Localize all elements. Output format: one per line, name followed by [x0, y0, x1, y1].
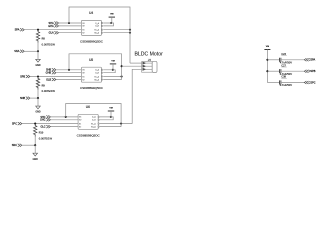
node SNB junction	[37, 97, 39, 99]
svg-text:SNC: SNC	[12, 144, 17, 147]
svg-text:VM: VM	[111, 61, 114, 63]
svg-text:U5: U5	[89, 58, 93, 62]
wire VM caps bus	[266, 50, 268, 83]
capacitor C27	[280, 64, 293, 76]
svg-text:S2: S2	[82, 33, 84, 35]
svg-text:GLA: GLA	[49, 32, 54, 35]
port SHC	[40, 115, 50, 118]
power flag VM (U6)	[108, 108, 114, 118]
wire R9 to SNB	[37, 90, 39, 99]
svg-text:CSPA: CSPA	[309, 59, 316, 62]
svg-text:GND: GND	[35, 65, 40, 67]
port CSPA	[304, 58, 315, 61]
wire SNA to junction	[24, 50, 38, 52]
ground GND A	[35, 51, 40, 67]
svg-text:GND: GND	[35, 112, 40, 114]
wire VM bus to C27	[267, 70, 279, 72]
port SNA	[14, 50, 24, 53]
svg-text:G1: G1	[82, 23, 85, 25]
capacitor C38	[280, 76, 293, 88]
port GHC	[40, 118, 50, 121]
wire phase A loop	[69, 7, 130, 63]
port GHB	[46, 71, 56, 74]
port GLA	[49, 31, 59, 34]
port CSPB	[304, 70, 315, 73]
svg-text:S1_A: S1_A	[94, 29, 99, 32]
port CSPC	[304, 81, 315, 84]
node SPA junction	[37, 29, 39, 31]
resistor R9	[36, 77, 55, 94]
svg-text:VM: VM	[109, 108, 112, 110]
svg-text:CSD88599Q5DC: CSD88599Q5DC	[80, 86, 104, 90]
label BLDC Motor	[135, 52, 164, 58]
wire GHA to U4 pin 2	[59, 25, 82, 27]
ground GND C	[33, 145, 38, 161]
port GLB	[46, 78, 56, 81]
svg-text:GHB: GHB	[46, 72, 52, 75]
wire SNC to junction	[22, 144, 35, 146]
svg-text:R10: R10	[39, 131, 44, 134]
resistor R8	[36, 30, 55, 47]
wire R10 to SNC	[34, 137, 36, 146]
svg-text:GLC: GLC	[40, 126, 45, 129]
node phase B motor tap	[121, 65, 123, 67]
capacitor C23	[280, 53, 293, 65]
svg-text:S2: S2	[82, 79, 84, 81]
node SNA junction	[37, 50, 39, 52]
wire U4 SW pin row 4	[103, 32, 130, 34]
svg-text:GND: GND	[33, 159, 38, 161]
svg-text:S0_A: S0_A	[94, 32, 99, 35]
label CSD88599Q5DC U6	[77, 133, 101, 137]
svg-text:SPA: SPA	[15, 29, 20, 32]
wire U6 SW pin row 3	[100, 123, 132, 125]
wire U6 SW pin row 4	[100, 126, 121, 128]
port GLC	[40, 125, 50, 128]
wire SPC to U6 pin 3	[22, 123, 78, 125]
svg-text:S0_A: S0_A	[91, 125, 96, 128]
svg-text:SPC: SPC	[12, 123, 17, 126]
wire phase C loop	[66, 104, 121, 127]
wire SNB to junction	[30, 97, 38, 99]
port SPC	[12, 122, 22, 125]
wire U4 VIN pins hook	[103, 23, 113, 26]
wire SHC to U6 pin 1	[51, 116, 79, 118]
node U5 SW row3 junction	[121, 75, 123, 77]
svg-text:GHC: GHC	[40, 119, 46, 122]
port SHB	[46, 68, 56, 71]
svg-text:U6: U6	[86, 105, 90, 109]
svg-text:G2: G2	[82, 26, 85, 28]
svg-text:S1: S1	[82, 76, 84, 78]
svg-text:VM: VM	[266, 46, 269, 48]
power flag VM (caps)	[264, 46, 270, 49]
svg-text:4.7uF/50V: 4.7uF/50V	[280, 83, 293, 87]
label CSD88599Q5DC U4	[80, 39, 104, 43]
svg-text:SNB: SNB	[20, 97, 25, 100]
svg-text:S1: S1	[79, 123, 81, 125]
svg-text:S2: S2	[79, 126, 81, 128]
wire C38 to CSPC	[281, 82, 304, 84]
wire SHA to U4 pin 1	[59, 22, 82, 24]
U6 right pin bubbles	[98, 116, 100, 127]
node U4 SW row4 junction	[129, 32, 131, 34]
node SPC junction	[34, 123, 36, 125]
node SHA loop junction	[68, 22, 70, 24]
wire GLB to U5 pin 4	[56, 79, 81, 81]
port SPB	[20, 75, 30, 78]
svg-text:0.007E/1W: 0.007E/1W	[42, 89, 56, 93]
wire VM bus to C38	[267, 82, 279, 84]
power flag VM (U4)	[109, 14, 115, 24]
port GHA	[48, 24, 58, 27]
svg-text:G1: G1	[82, 70, 85, 72]
node VM bus junction C23	[266, 59, 268, 61]
wire phase C to motor pin 3	[132, 69, 142, 123]
connector J4 pins 1-3	[143, 62, 153, 71]
connector J4 body	[142, 61, 157, 72]
wire SPB to U5 pin 3	[30, 76, 81, 78]
wire GHB to U5 pin 2	[56, 72, 81, 74]
svg-text:CSD88599Q5DC: CSD88599Q5DC	[77, 133, 101, 137]
port SPA	[15, 28, 25, 31]
port SHA	[49, 22, 59, 25]
svg-text:J4: J4	[148, 58, 151, 62]
svg-text:SNA: SNA	[14, 50, 19, 53]
power block U4	[81, 11, 101, 35]
svg-text:G2: G2	[82, 73, 85, 75]
svg-text:S1_A: S1_A	[91, 122, 96, 125]
svg-text:BLDC Motor: BLDC Motor	[135, 52, 164, 58]
power block U5	[81, 58, 101, 82]
resistor R10	[34, 124, 53, 141]
svg-text:CSPC: CSPC	[309, 81, 316, 84]
wire U5 VIN pins hook	[103, 70, 115, 73]
wire VM bus to C23	[267, 59, 279, 61]
svg-text:S1: S1	[82, 30, 84, 32]
power block U6	[78, 105, 98, 129]
wire GHC to U6 pin 2	[51, 119, 79, 121]
ground GND B	[35, 98, 40, 114]
wire phase B to motor pin 2	[122, 65, 142, 67]
wire R8 to SNA	[37, 43, 39, 52]
svg-text:SPB: SPB	[20, 75, 25, 78]
wire phase A to motor pin 1	[130, 62, 142, 64]
svg-text:VM: VM	[110, 14, 113, 16]
svg-text:G2: G2	[79, 120, 82, 122]
svg-text:GHA: GHA	[48, 25, 54, 28]
svg-text:S1_A: S1_A	[94, 75, 99, 78]
wire phase B loop	[69, 54, 122, 80]
wire U6 VIN pins hook	[100, 117, 113, 120]
wire SPA to U4 pin 3	[24, 29, 81, 31]
node SNC junction	[34, 144, 36, 146]
wire C27 to CSPB	[281, 70, 304, 72]
power flag VM (U5)	[110, 61, 116, 71]
svg-text:S0_A: S0_A	[94, 78, 99, 81]
wire C23 to CSPA	[281, 59, 304, 61]
svg-text:0.007E/1W: 0.007E/1W	[42, 42, 56, 46]
svg-text:0.007E/1W: 0.007E/1W	[39, 136, 53, 140]
connector J4 designator	[148, 58, 151, 62]
port SNC	[12, 144, 22, 147]
node U4 SW row3 junction	[129, 29, 131, 31]
svg-text:CSPB: CSPB	[309, 70, 316, 73]
U4 right pin bubbles	[101, 22, 103, 33]
svg-text:GLB: GLB	[46, 78, 51, 81]
wire SHB to U5 pin 1	[56, 69, 81, 71]
node SPB junction	[37, 75, 39, 77]
wire U4 SW pin row 3	[103, 29, 130, 31]
U5 right pin bubbles	[101, 69, 103, 80]
svg-text:G1: G1	[79, 117, 82, 119]
node VM bus junction C27	[266, 70, 268, 72]
wire GLA to U4 pin 4	[59, 32, 82, 34]
node SHB loop junction	[68, 69, 70, 71]
svg-text:CSD88599Q5DC: CSD88599Q5DC	[80, 39, 104, 43]
node SHC loop junction	[65, 116, 67, 118]
label CSD88599Q5DC U5	[80, 86, 104, 90]
wire GLC to U6 pin 4	[51, 126, 79, 128]
wire U5 SW pin row 3	[103, 76, 121, 78]
node U6 SW row3 junction	[120, 123, 122, 125]
port SNB	[20, 97, 30, 100]
svg-text:U4: U4	[89, 11, 93, 15]
wire U5 SW pin row 4	[103, 79, 121, 81]
